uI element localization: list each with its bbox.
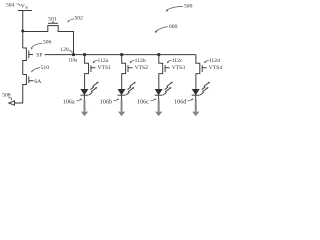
svg-text:VTS3: VTS3 [172,65,186,71]
svg-text:106b: 106b [100,100,112,106]
svg-text:112d: 112d [209,58,220,64]
svg-text:112b: 112b [135,58,146,64]
svg-text:500: 500 [184,4,193,10]
svg-text:106d: 106d [174,100,186,106]
svg-text:VTS4: VTS4 [209,65,223,71]
svg-text:112c: 112c [172,58,183,64]
svg-text:106c: 106c [137,100,149,106]
svg-text:VTS2: VTS2 [135,65,149,71]
svg-text:600: 600 [169,24,178,30]
svg-text:VTS1: VTS1 [98,65,112,71]
svg-text:506: 506 [43,40,52,46]
svg-text:110a: 110a [68,58,78,63]
svg-text:106a: 106a [63,100,75,106]
svg-text:112a: 112a [98,58,109,64]
svg-text:in: in [25,5,28,10]
svg-text:502: 502 [75,16,84,22]
svg-text:508: 508 [2,93,11,99]
svg-text:510: 510 [41,65,50,71]
svg-text:SF: SF [36,53,42,59]
svg-text:504: 504 [6,3,15,9]
svg-text:120: 120 [60,47,69,53]
svg-text:501: 501 [48,17,57,23]
svg-text:SA: SA [34,79,41,85]
